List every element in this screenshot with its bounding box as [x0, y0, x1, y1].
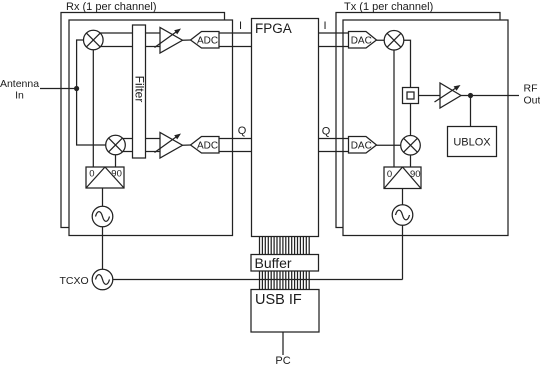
svg-text:Buffer: Buffer: [255, 255, 292, 271]
USB IF box: [251, 290, 319, 333]
mixer upper Rx: [84, 30, 104, 50]
svg-text:RF: RF: [524, 83, 538, 95]
svg-text:90: 90: [410, 169, 421, 180]
node antenna junction: [74, 86, 79, 91]
wire TCXO distribution: [113, 279, 403, 281]
svg-text:TCXO: TCXO: [60, 275, 89, 287]
mixer lower Tx: [401, 135, 421, 155]
wire Rx oscillator to TCXO: [102, 227, 104, 270]
svg-text:0: 0: [387, 169, 392, 180]
wire DAC to mixer lower: [377, 144, 405, 146]
svg-text:In: In: [15, 90, 24, 102]
wire Tx lower mixer to combiner: [410, 104, 412, 141]
wire combiner to Tx amp: [419, 95, 441, 97]
svg-text:0: 0: [89, 169, 94, 180]
phase splitter 0/90 Tx: [384, 167, 421, 189]
wire USB IF to PC: [282, 332, 284, 355]
svg-text:Tx (1 per channel): Tx (1 per channel): [344, 1, 433, 13]
wire filter to lower amp pair: [146, 138, 161, 140]
mixer upper Tx: [384, 30, 404, 50]
wire Tx upper mixer LO to 0/90: [393, 45, 395, 167]
wire ADC upper to FPGA (I pair): [219, 32, 252, 34]
oscillator Tx LO: [392, 205, 413, 226]
svg-text:90: 90: [111, 169, 122, 180]
wire Tx upper mixer to combiner: [400, 40, 411, 87]
Tx channel stack front box: [343, 20, 508, 236]
UBLOX box: [448, 127, 497, 157]
Rx channel stack front box: [69, 20, 233, 236]
wire FPGA to DAC upper (I pair): [319, 32, 349, 34]
phase splitter 0/90 Rx: [86, 167, 124, 188]
oscillator Rx LO: [92, 206, 113, 227]
DAC lower: [349, 137, 377, 154]
amplifier Tx: [440, 83, 461, 108]
wire DAC to mixer upper: [377, 39, 389, 41]
wire filter to upper amp pair: [146, 32, 161, 34]
ADC lower: [191, 137, 220, 154]
wire ADC lower to FPGA (Q pair): [219, 138, 252, 140]
oscillator TCXO: [92, 269, 113, 290]
node RF junction: [468, 93, 473, 98]
svg-text:ADC: ADC: [197, 35, 218, 46]
wire Tx oscillator to TCXO line: [402, 225, 404, 279]
amplifier lower Rx: [160, 133, 183, 159]
svg-text:PC: PC: [275, 355, 290, 365]
Tx channel stack back box: [336, 13, 500, 228]
svg-text:UBLOX: UBLOX: [453, 137, 491, 149]
wire FPGA to DAC lower (Q pair): [319, 138, 349, 140]
wire upper mixer out pair to filter: [100, 32, 133, 34]
wire upper mixer LO to 0/90: [92, 45, 94, 167]
svg-text:Q: Q: [238, 125, 247, 137]
svg-text:I: I: [323, 20, 326, 32]
wire amp to ADC lower: [183, 144, 191, 146]
svg-text:FPGA: FPGA: [255, 21, 292, 36]
ADC upper: [191, 32, 220, 49]
wire RF junction to UBLOX: [470, 96, 472, 127]
bus FPGA to Buffer (hatch): [260, 237, 310, 255]
bus Buffer to USB IF (hatch): [260, 271, 310, 290]
amplifier upper Rx: [160, 28, 183, 54]
svg-text:Out: Out: [524, 95, 540, 107]
wire Tx amp to RF out: [461, 95, 519, 97]
wire lower mixer out pair to filter: [123, 138, 133, 140]
Buffer box: [251, 255, 319, 272]
wire lower mixer LO to 0/90: [115, 150, 117, 167]
DAC upper: [349, 32, 377, 49]
svg-text:Q: Q: [322, 126, 331, 138]
combiner square: [403, 88, 419, 104]
wire amp to ADC upper: [183, 39, 191, 41]
wire antenna to lower mixer: [77, 89, 110, 146]
mixer lower Rx: [106, 135, 126, 155]
filter box: [133, 25, 146, 158]
svg-text:Filter: Filter: [132, 76, 146, 103]
svg-text:Antenna: Antenna: [0, 78, 39, 90]
svg-text:USB IF: USB IF: [255, 292, 302, 308]
wire Tx lower mixer LO to 0/90: [410, 150, 412, 167]
svg-text:DAC: DAC: [351, 140, 372, 151]
svg-text:ADC: ADC: [197, 140, 218, 151]
Rx channel stack back box: [61, 13, 225, 228]
wire 0/90 to Rx oscillator: [102, 188, 104, 207]
svg-text:I: I: [239, 20, 242, 32]
wire 0/90 to Tx oscillator: [402, 189, 404, 206]
wire antenna input: [40, 88, 77, 90]
wire antenna to upper mixer: [77, 40, 88, 89]
FPGA box: [252, 19, 319, 237]
svg-text:Rx (1 per channel): Rx (1 per channel): [66, 1, 157, 13]
svg-text:DAC: DAC: [351, 35, 372, 46]
